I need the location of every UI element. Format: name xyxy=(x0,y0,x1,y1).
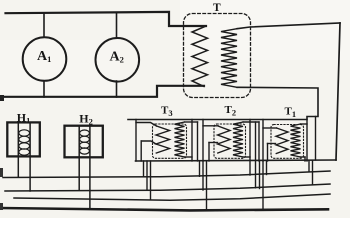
svg-text:T: T xyxy=(213,2,221,14)
